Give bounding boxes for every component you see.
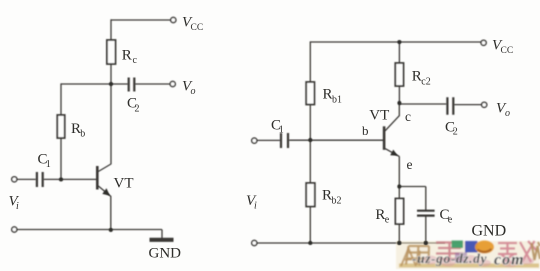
- svg-text:R: R: [122, 48, 132, 64]
- svg-text:CC: CC: [191, 23, 204, 33]
- svg-text:CC: CC: [501, 46, 514, 56]
- svg-text:-uz-go-dz.dy: -uz-go-dz.dy: [412, 251, 487, 266]
- svg-text:com: com: [494, 252, 525, 269]
- svg-text:i: i: [16, 201, 19, 212]
- svg-text:R: R: [322, 188, 332, 204]
- svg-text:VT: VT: [369, 108, 389, 124]
- svg-text:GND: GND: [149, 246, 182, 262]
- svg-text:e: e: [407, 157, 413, 172]
- svg-text:e: e: [448, 215, 453, 226]
- svg-text:i: i: [254, 201, 257, 212]
- svg-text:VT: VT: [114, 176, 134, 192]
- svg-text:c2: c2: [421, 76, 430, 87]
- svg-text:e: e: [385, 214, 390, 225]
- svg-text:2: 2: [135, 103, 140, 114]
- svg-text:b2: b2: [332, 195, 342, 206]
- svg-text:o: o: [191, 86, 196, 97]
- svg-text:R: R: [323, 87, 333, 103]
- svg-text:1: 1: [46, 159, 51, 170]
- svg-text:c: c: [405, 109, 411, 124]
- svg-text:b: b: [80, 128, 85, 139]
- svg-text:GND: GND: [472, 223, 507, 240]
- svg-text:b: b: [362, 123, 369, 138]
- svg-text:c: c: [133, 55, 138, 66]
- svg-text:2: 2: [453, 126, 458, 137]
- svg-text:1: 1: [279, 125, 284, 136]
- svg-text:b1: b1: [332, 95, 342, 106]
- svg-text:o: o: [505, 108, 510, 119]
